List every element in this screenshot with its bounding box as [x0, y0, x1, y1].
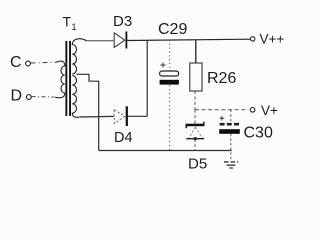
svg-text:D5: D5	[188, 156, 207, 173]
bottom rail wire	[99, 150, 232, 152]
diode D3	[114, 32, 127, 49]
wire V+ node to D5 (dashed)	[194, 110, 196, 124]
wire C29 to bottom rail (dotted)	[169, 85, 171, 151]
transformer secondary winding lower half	[72, 76, 80, 118]
capacitor C29 plus sign	[161, 63, 166, 68]
wire D3 cathode to V++ rail	[127, 39, 250, 40]
wire V+ node to C30 (dashed)	[230, 110, 232, 123]
svg-text:V+: V+	[261, 103, 278, 118]
wire secondary center tap	[76, 74, 98, 150]
diode D4	[114, 106, 128, 126]
wire secondary top to D3 anode	[85, 40, 114, 42]
ground symbol	[224, 162, 238, 168]
transformer T1 core	[65, 41, 67, 116]
svg-text:1: 1	[72, 22, 77, 32]
wire rail to C29 (dotted)	[169, 40, 171, 71]
capacitor C30	[219, 124, 240, 134]
svg-text:C30: C30	[244, 125, 273, 142]
svg-text:C29: C29	[158, 21, 187, 38]
wire D5 to bottom rail (dashed)	[194, 140, 196, 151]
resistor R26	[190, 63, 202, 91]
wire rail to R26	[195, 40, 197, 63]
wire secondary bottom to D4 anode	[80, 115, 114, 118]
transformer secondary winding upper half	[72, 39, 86, 74]
svg-text:R26: R26	[207, 70, 236, 87]
node C terminal circle	[26, 61, 31, 66]
wire C to primary (dash-dot)	[31, 61, 57, 64]
wire D4 cathode riser to rail	[146, 40, 148, 116]
capacitor C29	[160, 71, 179, 85]
wire D to primary (dashed)	[32, 96, 55, 98]
svg-text:V++: V++	[260, 31, 285, 46]
svg-text:D: D	[11, 88, 23, 105]
node D terminal circle	[26, 95, 31, 100]
svg-text:D3: D3	[113, 13, 132, 30]
node V+ terminal circle	[250, 108, 255, 113]
wire V+ node horizontal (dashed)	[195, 109, 248, 111]
node V++ terminal circle	[251, 37, 255, 41]
wire D4 to riser	[128, 115, 147, 117]
capacitor C30 plus sign	[220, 116, 225, 121]
svg-text:C: C	[10, 54, 22, 71]
wire R26 to V+ node (dashed)	[194, 91, 196, 110]
svg-text:T: T	[63, 14, 72, 30]
wire C30 to ground (dashed)	[230, 134, 232, 161]
zener diode D5	[186, 122, 205, 140]
svg-text:D4: D4	[114, 130, 133, 146]
transformer primary winding	[55, 61, 65, 98]
